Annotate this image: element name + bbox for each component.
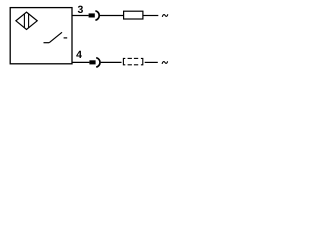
sensor body box B1 [10, 8, 72, 64]
connector X1 female socket arc [95, 11, 99, 20]
resistor R2 dashed right bracket [141, 58, 143, 64]
wire pin4 from box to connector [72, 61, 89, 63]
wire from resistor R2 to AC source [145, 61, 158, 63]
resistor R1 (load) [124, 11, 143, 19]
pin 3 label [78, 6, 83, 13]
switch contact S1 blade [49, 32, 62, 42]
proximity sensor diamond symbol [16, 12, 37, 29]
diamond inner line left [23, 14, 25, 28]
connector X1 male pin (filled) [89, 13, 95, 17]
AC supply tilde (top) [162, 14, 168, 17]
resistor R2 optional load (dashed) left bracket [123, 58, 125, 64]
wire from connector X2 to resistor R2 [101, 61, 122, 63]
resistor R2 dashed top dash 2 [134, 57, 138, 59]
wire from connector X1 to resistor R1 [100, 15, 124, 17]
connector X2 female socket arc [96, 58, 100, 67]
pin 4 label [76, 51, 82, 58]
resistor R2 dashed top dash 1 [128, 57, 132, 59]
wire from resistor R1 to AC source [143, 15, 158, 17]
wire pin3 from box to connector [72, 15, 89, 17]
switch contact S1 right terminal dash [64, 37, 68, 39]
resistor R2 dashed bottom dash 2 [134, 64, 138, 66]
resistor R2 dashed bottom dash 1 [128, 64, 132, 66]
connector X2 male pin (filled) [89, 60, 95, 64]
diamond inner line right [28, 14, 30, 28]
AC supply tilde (bottom) [162, 61, 168, 64]
switch contact S1 left lead [44, 42, 50, 44]
